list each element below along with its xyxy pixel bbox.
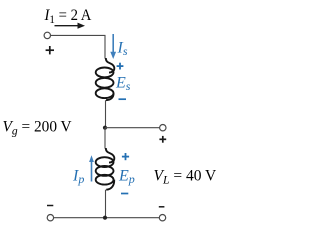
terminal bottom-left bbox=[47, 215, 53, 221]
wire node to VL top terminal bbox=[105, 127, 160, 129]
arrow Ip bbox=[89, 155, 94, 181]
wire Es to node bbox=[105, 100, 107, 128]
terminal bottom-right bbox=[159, 215, 165, 221]
plus sign Es bbox=[117, 63, 124, 70]
svg-text:VL = 40 V: VL = 40 V bbox=[154, 167, 217, 186]
plus sign Ep bbox=[122, 153, 129, 160]
svg-text:Es: Es bbox=[115, 74, 131, 93]
arrow Is bbox=[110, 34, 116, 59]
plus sign Vg top bbox=[46, 46, 54, 54]
svg-text:Vg = 200 V: Vg = 200 V bbox=[3, 118, 73, 137]
minus sign Es bbox=[119, 98, 127, 100]
terminal top-left bbox=[44, 32, 50, 38]
wire top horizontal and down bbox=[51, 35, 105, 58]
wire Ep to bottom bbox=[105, 190, 107, 218]
node junction middle bbox=[103, 126, 107, 130]
inductor Ep coil bbox=[96, 148, 115, 190]
inductor Es coil bbox=[96, 58, 115, 100]
node junction bottom bbox=[103, 216, 107, 220]
terminal VL top bbox=[160, 125, 166, 131]
svg-text:I1 = 2 A: I1 = 2 A bbox=[44, 6, 92, 26]
svg-text:Is: Is bbox=[117, 40, 128, 59]
arrow I1 direction bbox=[55, 23, 86, 29]
plus sign VL bbox=[159, 136, 166, 143]
wire bottom bbox=[54, 217, 160, 219]
minus sign Vg bottom bbox=[47, 205, 53, 207]
svg-text:Ep: Ep bbox=[118, 167, 135, 186]
minus sign VL bottom bbox=[159, 206, 165, 208]
wire node down to Ep bbox=[104, 128, 106, 149]
svg-text:Ip: Ip bbox=[72, 167, 84, 186]
minus sign Ep bbox=[121, 193, 128, 195]
